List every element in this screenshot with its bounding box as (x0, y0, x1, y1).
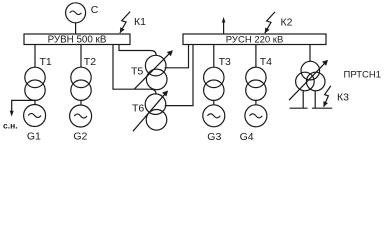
PRTSN1 right secondary lead (314, 91, 316, 109)
wire T4 to G4 (255, 100, 257, 104)
autotransformer T6 (145, 94, 166, 115)
generator G3 (203, 105, 225, 127)
wire T2 to G2 (80, 100, 82, 104)
PRTSN1 left terminal bar (290, 107, 308, 109)
generator G4 (245, 105, 267, 127)
svg-text:G1: G1 (27, 130, 41, 142)
svg-text:РУСН 220 кВ: РУСН 220 кВ (226, 34, 284, 45)
svg-text:К2: К2 (281, 17, 293, 29)
wire T5 to RUSN (165, 45, 189, 68)
svg-text:Т3: Т3 (219, 56, 231, 68)
svg-text:с.н.: с.н. (3, 121, 18, 131)
transformer T4 (255, 45, 257, 68)
lightning K2 (265, 12, 275, 33)
generator C (system source) (66, 3, 86, 23)
PRTSN1 regulation arrow (289, 62, 326, 100)
svg-text:G2: G2 (73, 130, 87, 142)
s.n. tap branch with down arrow (12, 100, 35, 112)
generator G1 (24, 105, 46, 127)
T5 regulation arrow (134, 53, 170, 89)
svg-text:С: С (91, 4, 99, 16)
svg-text:G4: G4 (240, 131, 254, 143)
svg-text:G3: G3 (207, 131, 221, 143)
bus RUVN 500 kV (24, 34, 130, 45)
transformer T3 (213, 45, 215, 68)
svg-text:Т1: Т1 (40, 56, 52, 68)
wire T3 to G3 (213, 100, 215, 104)
svg-text:Т5: Т5 (131, 65, 143, 77)
transformer T2 (80, 45, 82, 68)
svg-text:К3: К3 (337, 92, 349, 104)
svg-text:Т6: Т6 (132, 102, 144, 114)
PRTSN1 right terminal bar (312, 107, 332, 109)
generator G2 (70, 105, 92, 127)
line feeder up arrow (223, 21, 225, 34)
svg-text:К1: К1 (134, 16, 146, 28)
PRTSN1 left secondary lead (302, 91, 304, 109)
three-winding transformer PRTSN1 (301, 61, 320, 80)
wire RUSN to PRTSN1 (309, 45, 311, 62)
bus RUSN 220 kV (183, 34, 326, 45)
autotransformer T5 (145, 55, 166, 76)
T6 regulation arrow (133, 93, 166, 131)
svg-text:РУВН 500 кВ: РУВН 500 кВ (48, 34, 107, 45)
wire RUVN to T6 (113, 45, 156, 94)
svg-text:ПРТСН1: ПРТСН1 (344, 69, 382, 80)
wire T1 to G1 (34, 100, 36, 104)
lightning K1 (120, 12, 130, 33)
transformer T1 (34, 45, 36, 68)
wire RUVN to T5 (119, 45, 156, 56)
svg-text:Т2: Т2 (84, 56, 96, 68)
lightning K3 (324, 86, 331, 107)
wire C to RUVN bus (75, 23, 77, 34)
wire T6 to RUSN (165, 45, 193, 106)
svg-text:Т4: Т4 (260, 56, 272, 68)
